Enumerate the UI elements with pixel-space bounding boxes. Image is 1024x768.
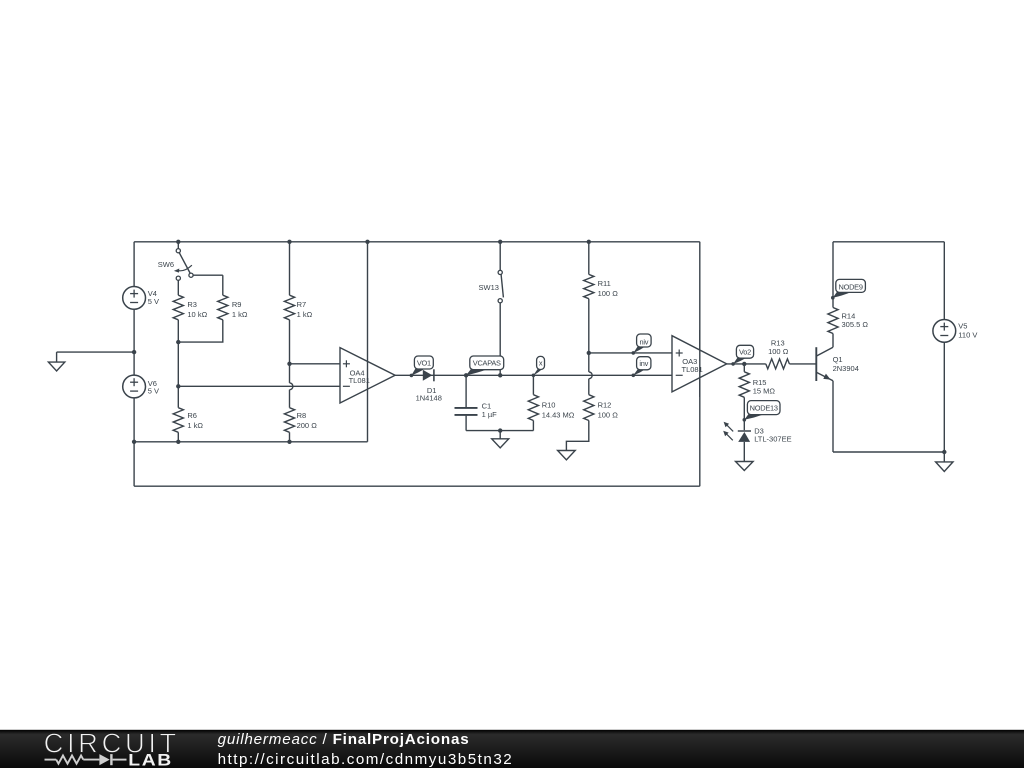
ground GND C1 (499, 431, 501, 439)
voltage source V5 (933, 320, 956, 343)
wire OA3 output (727, 363, 766, 365)
resistor R10 (528, 395, 538, 421)
wire left rail upper segment (133, 242, 135, 287)
op-amp OA4 (340, 348, 395, 403)
wire R12 bottom jog (566, 421, 588, 451)
resistor R14 (828, 308, 838, 334)
svg-text:1 kΩ: 1 kΩ (297, 310, 313, 319)
junction dot V5 ground (942, 450, 946, 454)
svg-text:inv: inv (639, 359, 648, 368)
svg-text:SW13: SW13 (479, 283, 499, 292)
op-amp OA3 (672, 336, 727, 392)
svg-text:R11: R11 (598, 279, 611, 288)
resistor R12 (584, 395, 594, 421)
svg-text:R3: R3 (187, 300, 197, 309)
resistor R15 (739, 372, 749, 398)
LED D3 (738, 430, 751, 432)
junction dot SW13 bottom (498, 373, 502, 377)
wire right rail (through OA3 supply pins) (699, 242, 701, 486)
resistor R7 (284, 295, 294, 320)
wire V5 top (943, 242, 945, 320)
ground GND D3 (736, 462, 754, 471)
wire ground tap (57, 351, 135, 353)
op-amp OA4 supply wire (367, 242, 369, 442)
resistor R8 (284, 408, 294, 433)
junction dot SW13 top (498, 240, 502, 244)
svg-text:LTL-307EE: LTL-307EE (754, 435, 791, 444)
svg-text:http://circuitlab.com/cdnmyu3b: http://circuitlab.com/cdnmyu3b5tn32 (218, 751, 514, 768)
wire R6 bottom (177, 432, 179, 442)
junction dot OA4 V+ (365, 240, 369, 244)
junction dot ground tap (132, 350, 136, 354)
op-amp OA3 minus sign (676, 374, 683, 376)
junction dot R11 top (587, 240, 591, 244)
voltage source V4 (123, 287, 146, 310)
junction dot C1 ground (498, 428, 502, 432)
wire R13 to Q1 base (789, 363, 815, 365)
node VCAPAS (466, 369, 488, 375)
wire R11-R12 to hop (588, 353, 590, 372)
wire niv row (589, 352, 672, 354)
resistor R9 (218, 295, 228, 320)
wire left rail mid segment (133, 309, 135, 375)
svg-text:100 Ω: 100 Ω (768, 347, 789, 356)
junction dot SW6 top (176, 240, 180, 244)
wire SW6 throw to R3 (177, 280, 179, 295)
svg-text:R7: R7 (297, 300, 307, 309)
wire R6 top (177, 386, 179, 407)
CircuitLab logo text LAB (128, 751, 173, 768)
wire OA4 output row (395, 374, 672, 376)
wire bottom rail (134, 485, 700, 487)
node Vo2 (733, 358, 747, 364)
svg-text:TL081: TL081 (349, 376, 370, 385)
svg-text:1 kΩ: 1 kΩ (187, 421, 203, 430)
svg-text:VO1: VO1 (417, 358, 431, 367)
svg-text:110 V: 110 V (958, 331, 977, 340)
resistor R6 (173, 408, 183, 433)
svg-text:14.43 MΩ: 14.43 MΩ (542, 411, 575, 420)
wire R8 bottom (289, 432, 291, 442)
resistor R13 (766, 359, 790, 369)
wire node to inverting input (177, 342, 179, 386)
wire C1 bottom row (466, 430, 533, 432)
svg-text:SW6: SW6 (158, 260, 174, 269)
CircuitLab logo resistor-diode glyph (45, 759, 57, 761)
ground GND V5 (943, 452, 945, 462)
svg-text:1 µF: 1 µF (482, 410, 498, 419)
svg-text:R12: R12 (598, 401, 612, 410)
node x (533, 369, 542, 376)
junction dot inner rail at left rail (132, 440, 136, 444)
wire OA4 inverting input (178, 385, 340, 387)
svg-text:Vo2: Vo2 (739, 348, 751, 357)
junction dot + tap (287, 362, 291, 366)
resistor R3 (173, 295, 183, 320)
svg-text:NODE13: NODE13 (750, 404, 778, 413)
diode D1 (423, 370, 433, 381)
svg-text:R10: R10 (542, 401, 556, 410)
wire hop to R8 (289, 390, 291, 408)
junction dot R7 top (287, 240, 291, 244)
wire R10 bottom (532, 421, 534, 431)
switch SW13 (499, 242, 501, 270)
svg-text:R8: R8 (297, 411, 307, 420)
svg-text:TL081: TL081 (682, 365, 703, 374)
node inv (633, 369, 645, 375)
resistor R11 (584, 274, 594, 298)
svg-text:R9: R9 (232, 300, 242, 309)
ground GND R12 (558, 451, 576, 460)
wire hop to R12 (588, 379, 590, 395)
svg-text:guilhermeacc / FinalProjAciona: guilhermeacc / FinalProjAcionas (218, 731, 470, 748)
switch SW6 (177, 242, 179, 249)
node niv (633, 346, 645, 353)
wire R7 top (289, 242, 291, 295)
wire collector to top (832, 242, 834, 308)
svg-text:5 V: 5 V (148, 297, 159, 306)
transistor Q1 (815, 347, 817, 381)
wire R11 bottom (588, 299, 590, 353)
wire R11 top (588, 242, 590, 275)
wire R10 top (532, 375, 534, 394)
wire R15 top (743, 364, 745, 372)
node NODE13 (744, 414, 765, 420)
wire OA4 non-inverting input (290, 363, 341, 365)
svg-text:100 Ω: 100 Ω (598, 289, 619, 298)
wire SW6 throw to R9 (193, 274, 223, 276)
voltage source V6 (123, 375, 146, 398)
wire right loop top (833, 241, 944, 243)
wire hop over inverting wire (290, 383, 293, 390)
op-amp OA4 plus sign (343, 363, 350, 365)
svg-text:10 kΩ: 10 kΩ (187, 310, 207, 319)
wire + tap to hop (289, 364, 291, 383)
svg-text:1 kΩ: 1 kΩ (232, 310, 248, 319)
svg-text:15 MΩ: 15 MΩ (753, 386, 776, 395)
svg-text:R6: R6 (187, 411, 197, 420)
junction dot C1 branch (464, 373, 468, 377)
junction dot inverting node (176, 384, 180, 388)
wire inner negative rail (134, 441, 367, 443)
wire R3 bottom (177, 320, 179, 342)
svg-text:LAB: LAB (128, 751, 173, 768)
svg-text:100 Ω: 100 Ω (598, 411, 619, 420)
svg-text:V5: V5 (958, 321, 967, 330)
svg-text:VCAPAS: VCAPAS (473, 359, 501, 368)
op-amp OA4 minus sign (343, 385, 350, 387)
wire R7 bottom to + tap (289, 320, 291, 364)
node NODE9 (833, 292, 852, 298)
wire emitter down (832, 381, 834, 452)
wire right loop bottom (833, 451, 944, 453)
svg-text:NODE9: NODE9 (838, 282, 862, 291)
wire left rail lower segment (133, 398, 135, 487)
svg-text:niv: niv (639, 337, 648, 346)
junction dot R8 bottom (287, 440, 291, 444)
wire R14 to collector (832, 334, 834, 348)
wire V5 bottom (943, 342, 945, 452)
junction dot R6 bottom (176, 440, 180, 444)
svg-text:5 V: 5 V (148, 387, 159, 396)
ground GND left (56, 352, 58, 362)
node VO1 (411, 368, 425, 375)
svg-text:200 Ω: 200 Ω (297, 421, 318, 430)
svg-text:x: x (539, 358, 543, 367)
capacitor C1 (465, 375, 467, 407)
wire hop over output row (589, 372, 592, 379)
junction dot R3-R9 (176, 340, 180, 344)
wire top rail (134, 241, 700, 243)
svg-text:305.5 Ω: 305.5 Ω (842, 320, 869, 329)
op-amp OA3 plus sign (676, 352, 683, 354)
svg-text:2N3904: 2N3904 (833, 364, 859, 373)
junction dot Vo2 (742, 362, 746, 366)
wire R15 to D3 (743, 397, 745, 430)
svg-text:1N4148: 1N4148 (416, 394, 442, 403)
junction dot niv tap (587, 351, 591, 355)
wire right rail through OA3 (699, 330, 701, 397)
wire R9 bottom (178, 320, 223, 342)
